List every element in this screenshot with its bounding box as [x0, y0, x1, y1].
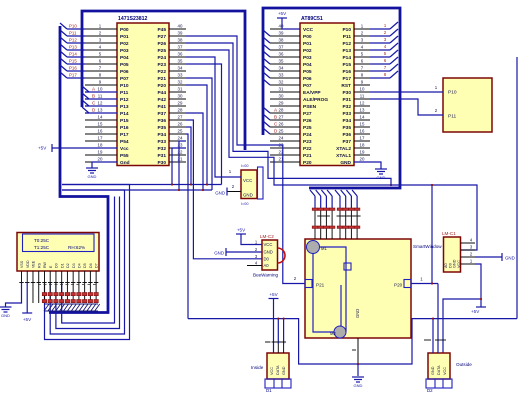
- LCD pin1 wire to ground: [6, 283, 22, 308]
- svg-text:RH:62%: RH:62%: [68, 245, 85, 250]
- svg-text:GND: GND: [88, 174, 97, 179]
- outside sensor tick bar: [424, 339, 431, 341]
- svg-text:39: 39: [279, 30, 284, 35]
- header wire 2 above smart window: [316, 190, 321, 196]
- 1471S23812 right pin 26 (P35): [169, 126, 186, 128]
- ground symbol below U1: [86, 167, 98, 169]
- svg-text:P15: P15: [69, 59, 77, 64]
- svg-text:P13: P13: [120, 104, 129, 110]
- svg-text:34: 34: [279, 65, 284, 70]
- wire U2 GND pin20 to ground: [354, 162, 381, 169]
- wire net D from bus A to U1 pin 13: [82, 107, 89, 113]
- AT89C51 right pin 14 (P34): [354, 119, 370, 121]
- wire U2 P04 to bus B: [263, 58, 270, 64]
- wire net P14 from bus C to U1 pin 5: [60, 51, 67, 57]
- far right vertical wire: [516, 57, 518, 319]
- svg-text:28: 28: [178, 107, 183, 112]
- svg-text:GND: GND: [282, 366, 286, 375]
- AT89C51 left pin 26 (P25): [270, 126, 300, 128]
- svg-text:GND: GND: [243, 193, 253, 198]
- svg-text:VDD: VDD: [26, 260, 30, 268]
- svg-text:P42: P42: [157, 97, 166, 103]
- AT89C51 right pin 6 (P15): [354, 63, 370, 65]
- 1471S23812 left pin 17 (P54): [85, 140, 117, 142]
- svg-text:GND: GND: [214, 251, 224, 256]
- AT89C51 right pin 9 (RST): [354, 84, 370, 86]
- svg-text:26: 26: [279, 121, 284, 126]
- svg-text:P20: P20: [303, 160, 312, 166]
- svg-text:EA/VPP: EA/VPP: [303, 90, 321, 96]
- svg-text:10: 10: [98, 86, 103, 91]
- wire LCD Ha y=323: [62, 197, 115, 324]
- svg-text:14: 14: [98, 114, 103, 119]
- AT89C51 left pin 21 (P20): [270, 161, 300, 163]
- wire net P13 from bus C to U1 pin 4: [60, 44, 67, 50]
- 1471S23812 right pin 25 (P34): [169, 133, 186, 135]
- 1471S23812 right pin 22 (P31): [169, 154, 186, 156]
- svg-text:35: 35: [178, 58, 183, 63]
- svg-text:P20: P20: [394, 283, 403, 288]
- svg-text:19: 19: [98, 149, 103, 154]
- svg-text:P34: P34: [342, 118, 351, 124]
- motor M2 circle: [334, 326, 346, 338]
- svg-text:16: 16: [98, 128, 103, 133]
- AT89C51 right pin 19 (XTAL1): [354, 154, 370, 156]
- AT89C51 right pin 7 (P16): [354, 70, 370, 72]
- AT89C51 right pin 4 (P13): [354, 49, 370, 51]
- wire net A from bus A to U1 pin 10: [82, 86, 89, 92]
- AT89C51 right pin 13 (P33): [354, 112, 370, 114]
- svg-text:P01: P01: [303, 41, 312, 47]
- wire U2 P06 to bus B: [263, 72, 270, 78]
- svg-text:18: 18: [98, 142, 103, 147]
- svg-text:P33: P33: [342, 111, 351, 117]
- LCD module LCD1 body: [17, 233, 99, 272]
- svg-text:RST: RST: [341, 83, 351, 89]
- svg-text:P12: P12: [342, 41, 351, 47]
- AT89C51 right pin 2 (P11): [354, 35, 370, 37]
- header wire 6 above smart window: [341, 190, 346, 196]
- AT89C51 left pin 35 (P04): [270, 63, 300, 65]
- LM-C1 pin 2 stub: [461, 256, 476, 258]
- svg-text:P14: P14: [342, 55, 351, 61]
- svg-text:B: B: [92, 94, 95, 99]
- AT89C51 left pin 30 (ALE/PROG): [270, 98, 300, 100]
- svg-text:10: 10: [360, 86, 365, 91]
- svg-text:D2: D2: [66, 263, 70, 268]
- outside sensor GND wire: [432, 319, 434, 353]
- wire LCD Hc y=334: [50, 190, 124, 334]
- svg-text:P07: P07: [303, 83, 312, 89]
- junction at smart window pin: [357, 363, 359, 365]
- pin notch right: [404, 280, 411, 288]
- wire P20 riser to GND rail: [431, 185, 433, 284]
- svg-text:33: 33: [279, 72, 284, 77]
- junction: [206, 183, 208, 185]
- svg-text:P30: P30: [342, 90, 351, 96]
- svg-text:P37: P37: [157, 111, 166, 117]
- wire U2 P31 to J2 pin2: [370, 99, 443, 115]
- wire U1 row4 staircase to LM-C1 pin3: [186, 50, 477, 250]
- wire U2 P17 to right bus: [370, 77, 390, 79]
- wire U2 P15 to right bus: [370, 63, 390, 65]
- LCD screen: [23, 234, 95, 252]
- 1471S23812 left pin 18 (Vcc): [85, 147, 117, 149]
- svg-text:32: 32: [279, 79, 284, 84]
- motor M1 circle: [307, 241, 320, 254]
- wire net A from bus B to U2: [263, 107, 270, 113]
- inside sensor tick bar: [265, 341, 271, 343]
- 1471S23812 left pin 3 (P02): [85, 42, 117, 44]
- svg-text:35: 35: [279, 58, 284, 63]
- svg-text:P12: P12: [120, 97, 129, 103]
- svg-text:19: 19: [360, 149, 365, 154]
- sensor S2 Outside body: [428, 353, 450, 379]
- wire U1 row16 long riser to GND run: [186, 134, 188, 319]
- svg-text:P21: P21: [316, 283, 325, 288]
- AT89C51 left pin 39 (P00): [270, 35, 300, 37]
- svg-text:P04: P04: [120, 55, 129, 61]
- AT89C51 right pin 12 (P32): [354, 105, 370, 107]
- svg-text:13: 13: [98, 107, 103, 112]
- header wire 1 above smart window: [310, 190, 315, 196]
- 1471S23812 right pin 33 (P21): [169, 77, 186, 79]
- wire net P15 from bus C to U1 pin 6: [60, 58, 67, 64]
- svg-text:Gnd: Gnd: [120, 160, 130, 166]
- 1471S23812 left pin 1 (P00): [85, 28, 117, 30]
- svg-text:T0:25C: T0:25C: [34, 238, 50, 243]
- svg-text:XTAL1: XTAL1: [336, 153, 351, 159]
- AT89C51 left pin 37 (P02): [270, 49, 300, 51]
- 1471S23812 left pin 9 (P10): [85, 84, 117, 86]
- wire U2 P07 to bus B: [263, 79, 270, 85]
- LCD tick dashed row: [38, 284, 96, 286]
- svg-text:30: 30: [279, 93, 284, 98]
- 1471S23812 left pin 14 (P15): [85, 119, 117, 121]
- smart window bottom pin stub: [357, 338, 359, 364]
- svg-text:GND: GND: [1, 313, 10, 318]
- wire U1 row8 to tail rail 2: [186, 78, 212, 190]
- 1471S23812 right pin 24 (P33): [169, 140, 186, 142]
- svg-text:P21: P21: [303, 153, 312, 159]
- wire U1 row13 to tail rail 2: [186, 113, 203, 190]
- LCD pin2 wire to +5V: [26, 283, 28, 314]
- svg-text:27: 27: [178, 114, 183, 119]
- LM-C1 pin 4 stub: [461, 242, 476, 244]
- svg-text:P32: P32: [157, 146, 166, 152]
- 1471S23812 right pin 38 (P26): [169, 42, 186, 44]
- ground symbol LCD: [0, 306, 12, 308]
- module U5 LM-C1 body: [444, 237, 461, 272]
- 1471S23812 right pin 23 (P32): [169, 147, 186, 149]
- 1471S23812 right pin 35 (P23): [169, 63, 186, 65]
- header wire 3 above smart window: [321, 190, 326, 196]
- svg-text:GND: GND: [264, 250, 273, 255]
- 1471S23812 left pin 19 (P55): [85, 154, 117, 156]
- wire LCD Hd y=339.5: [45, 185, 130, 340]
- outside sensor DATA wire: [437, 284, 439, 354]
- svg-text:P37: P37: [342, 139, 351, 145]
- wire U2 P02 to bus B: [263, 44, 270, 50]
- svg-text:27: 27: [279, 114, 284, 119]
- 1471S23812 right pin 39 (P27): [169, 35, 186, 37]
- part X1 side element: [258, 167, 264, 199]
- svg-text:GND: GND: [340, 160, 351, 166]
- buzzer module U4 body: [262, 240, 278, 270]
- svg-text:31: 31: [178, 86, 183, 91]
- svg-text:D1: D1: [266, 388, 272, 393]
- svg-text:P17: P17: [69, 73, 77, 78]
- wire U2 P14 to right bus: [370, 56, 390, 58]
- svg-text:34: 34: [178, 65, 183, 70]
- svg-text:P35: P35: [157, 125, 166, 131]
- LCD connector red contact rows: [42, 293, 46, 296]
- 1471S23812 right pin 29 (P41): [169, 105, 186, 107]
- LM-C1 pin 1 stub: [461, 263, 476, 265]
- header wire 5 above smart window: [335, 190, 340, 196]
- svg-text:GND: GND: [354, 383, 363, 388]
- svg-text:38: 38: [279, 37, 284, 42]
- svg-text:P41: P41: [157, 104, 166, 110]
- AT89C51 left pin 40 (VCC): [270, 28, 300, 30]
- svg-text:P30: P30: [157, 160, 166, 166]
- svg-text:28: 28: [279, 107, 284, 112]
- svg-text:B: B: [274, 115, 277, 120]
- svg-text:VCC: VCC: [457, 260, 461, 268]
- svg-text:12: 12: [360, 100, 365, 105]
- svg-text:P31: P31: [157, 153, 166, 159]
- svg-text:I=00: I=00: [241, 164, 249, 168]
- svg-text:P44: P44: [157, 90, 166, 96]
- svg-text:P00: P00: [120, 27, 129, 33]
- svg-text:37: 37: [178, 44, 183, 49]
- svg-text:P35: P35: [342, 125, 351, 131]
- wire net B from bus B to U2: [263, 114, 270, 120]
- part X1 VCC/GND body: [241, 170, 257, 199]
- svg-text:P01: P01: [120, 34, 129, 40]
- wire LCD Hb y=328.5: [56, 197, 120, 329]
- svg-text:15: 15: [98, 121, 103, 126]
- AT89C51 left pin 38 (P01): [270, 42, 300, 44]
- svg-text:30: 30: [178, 93, 183, 98]
- svg-text:P36: P36: [342, 132, 351, 138]
- svg-text:+5V: +5V: [38, 146, 47, 151]
- svg-text:AT89C51: AT89C51: [301, 16, 323, 22]
- tail rail 2 y=190: [62, 189, 212, 191]
- svg-text:31: 31: [279, 86, 284, 91]
- svg-text:20: 20: [360, 156, 365, 161]
- junction y185: [390, 184, 392, 186]
- svg-text:+5V: +5V: [278, 11, 287, 16]
- riser to inside sensor DATA: [277, 319, 279, 344]
- svg-text:P11: P11: [343, 34, 352, 40]
- svg-text:P10: P10: [120, 83, 129, 89]
- 1471S23812 left pin 7 (P06): [85, 70, 117, 72]
- svg-text:14: 14: [360, 114, 365, 119]
- 1471S23812 left pin 15 (P16): [85, 126, 117, 128]
- AT89C51 left pin 36 (P03): [270, 56, 300, 58]
- svg-text:D4: D4: [78, 263, 82, 268]
- wire U1 Gnd pin20 to ground: [92, 162, 117, 168]
- svg-text:37: 37: [279, 44, 284, 49]
- AT89C51 right pin 10 (P30): [354, 91, 370, 93]
- svg-text:23: 23: [178, 142, 183, 147]
- header contact red dashes row1: [312, 208, 318, 210]
- wire U1 row18 to tail rail 1: [172, 148, 186, 185]
- sensor connector D2: [426, 379, 452, 388]
- svg-text:P20: P20: [157, 83, 166, 89]
- svg-text:P05: P05: [120, 62, 129, 68]
- svg-text:P31: P31: [342, 97, 351, 103]
- inner linkage loop: [313, 253, 334, 332]
- ground symbol below smart window: [357, 364, 359, 376]
- svg-text:D1: D1: [60, 263, 64, 268]
- wire U1 row3 staircase to y185 rail: [186, 43, 391, 185]
- wire U2 P12 to right bus: [370, 42, 390, 44]
- svg-text:P11: P11: [120, 90, 129, 96]
- svg-text:P24: P24: [303, 132, 312, 138]
- svg-text:P17: P17: [342, 76, 351, 82]
- svg-text:+5V: +5V: [471, 309, 480, 314]
- AT89C51 left pin 27 (P26): [270, 119, 300, 121]
- svg-text:SmartWindow: SmartWindow: [413, 244, 442, 249]
- svg-text:29: 29: [178, 100, 183, 105]
- junction: [202, 189, 204, 191]
- wire net C from bus A to U1 pin 12: [82, 100, 89, 106]
- svg-text:RW: RW: [43, 261, 47, 268]
- wire U2 P11 to right bus: [370, 35, 390, 37]
- 1471S23812 left pin 11 (P12): [85, 98, 117, 100]
- tail rail 1 y=184.5: [62, 184, 222, 186]
- 1471S23812 right pin 36 (P24): [169, 56, 186, 58]
- sensor connector D1: [265, 379, 291, 388]
- header contact red dashes row2: [312, 226, 318, 228]
- svg-text:GND: GND: [377, 175, 386, 180]
- junction: [178, 189, 180, 191]
- svg-text:RS: RS: [37, 262, 41, 268]
- svg-text:36: 36: [178, 51, 183, 56]
- svg-text:P14: P14: [69, 52, 77, 57]
- wire net P16 from bus C to U1 pin 7: [60, 65, 67, 71]
- svg-text:GND: GND: [431, 366, 435, 375]
- wire U2 P10 to right bus: [370, 28, 390, 30]
- svg-text:+5V: +5V: [23, 317, 32, 322]
- AT89C51 left pin 34 (P05): [270, 70, 300, 72]
- junction +5V rail: [480, 298, 482, 300]
- svg-text:VCC: VCC: [270, 367, 274, 375]
- svg-text:GND: GND: [505, 256, 515, 261]
- svg-text:P15: P15: [342, 62, 351, 68]
- bus C (LCD data bus, left vertical): [49, 26, 108, 313]
- svg-text:P16: P16: [120, 125, 129, 131]
- AT89C51 right pin 8 (P17): [354, 77, 370, 79]
- svg-text:GND: GND: [215, 191, 225, 196]
- wire LM-C1 pin1 to +5V rail: [475, 264, 481, 307]
- 1471S23812 right pin 28 (P37): [169, 112, 186, 114]
- wire U1 Vcc pin18 to +5V: [52, 147, 117, 149]
- bus A (left chip address bus): [82, 11, 245, 150]
- svg-text:P32: P32: [342, 104, 351, 110]
- svg-text:P07: P07: [120, 76, 129, 82]
- AT89C51 left pin 24 (P23): [270, 140, 300, 142]
- svg-text:1471S23812: 1471S23812: [118, 16, 148, 22]
- smart window assembly body: [305, 239, 411, 338]
- wire U1 row17 to tail rail 2: [179, 141, 186, 190]
- +5V symbol at U2 VCC: [282, 18, 300, 29]
- svg-text:P10: P10: [448, 90, 457, 96]
- svg-text:P03: P03: [120, 48, 129, 54]
- svg-text:+5V: +5V: [269, 292, 278, 297]
- svg-text:P54: P54: [120, 139, 129, 145]
- wire U1 row5 to X1 pin1: [186, 57, 241, 177]
- wire U2 P30 to J2 pin1: [370, 91, 443, 93]
- svg-text:24: 24: [178, 135, 183, 140]
- wire U2 P13 to right bus: [370, 49, 390, 51]
- svg-text:P33: P33: [157, 139, 166, 145]
- AT89C51 left pin 31 (EA/VPP): [270, 91, 300, 93]
- wire smart window P20 pin1: [411, 283, 438, 285]
- 1471S23812 right pin 27 (P36): [169, 119, 186, 121]
- buzzer pin2 wire to GND label: [226, 251, 262, 253]
- svg-text:T1:25C: T1:25C: [34, 245, 50, 250]
- svg-text:P16: P16: [342, 69, 351, 75]
- svg-text:17: 17: [360, 135, 365, 140]
- AT89C51 right pin 5 (P14): [354, 56, 370, 58]
- 1471S23812 left pin 20 (Gnd): [85, 161, 117, 163]
- wire U1 row15 to tail rail 1: [186, 127, 191, 185]
- AT89C51 right pin 15 (P35): [354, 126, 370, 128]
- svg-text:P25: P25: [303, 125, 312, 131]
- wire net P10 from bus C to U1 pin 1: [60, 23, 67, 29]
- svg-text:38: 38: [178, 37, 183, 42]
- 1471S23812 left pin 13 (P14): [85, 112, 117, 114]
- svg-text:Outside: Outside: [456, 362, 472, 367]
- svg-text:P22: P22: [157, 69, 166, 75]
- wire LM-C1 pin2 to GND label: [475, 256, 502, 258]
- svg-text:22: 22: [178, 149, 183, 154]
- svg-text:XTAL2: XTAL2: [336, 146, 351, 152]
- svg-text:P10: P10: [342, 27, 351, 33]
- buzzer pin4 stub: [247, 265, 262, 267]
- 1471S23812 left pin 6 (P05): [85, 63, 117, 65]
- svg-text:P11: P11: [69, 31, 77, 36]
- svg-text:Inside: Inside: [251, 365, 264, 370]
- inside sensor data/gnd wire stubs: [277, 344, 279, 353]
- svg-text:29: 29: [279, 100, 284, 105]
- svg-text:VCC: VCC: [243, 178, 252, 183]
- svg-text:20: 20: [98, 156, 103, 161]
- svg-text:21: 21: [178, 156, 183, 161]
- ground symbol right of U2: [375, 168, 387, 170]
- svg-text:P34: P34: [157, 132, 166, 138]
- AT89C51 left pin 29 (PSEN): [270, 105, 300, 107]
- wire H1 long GND run y=318.6: [188, 319, 517, 364]
- X1 pin 2 wire and GND net label: [227, 191, 241, 193]
- connector box J2 (P10/P11): [443, 78, 492, 132]
- svg-text:P10: P10: [69, 24, 77, 29]
- 1471S23812 right pin 34 (P22): [169, 70, 186, 72]
- 1471S23812 left pin 8 (P07): [85, 77, 117, 79]
- +5V for inside sensor: [273, 299, 275, 354]
- svg-text:VSS: VSS: [20, 260, 24, 268]
- AT89C51 left pin 25 (P24): [270, 133, 300, 135]
- header wire 8 above smart window: [352, 190, 357, 196]
- svg-text:P22: P22: [303, 146, 312, 152]
- wire net P17 from bus C to U1 pin 8: [60, 72, 67, 78]
- svg-text:Vcc: Vcc: [120, 146, 129, 152]
- +5V symbol bottom right: [476, 306, 486, 308]
- wire +5V to outside sensor VCC: [443, 299, 481, 353]
